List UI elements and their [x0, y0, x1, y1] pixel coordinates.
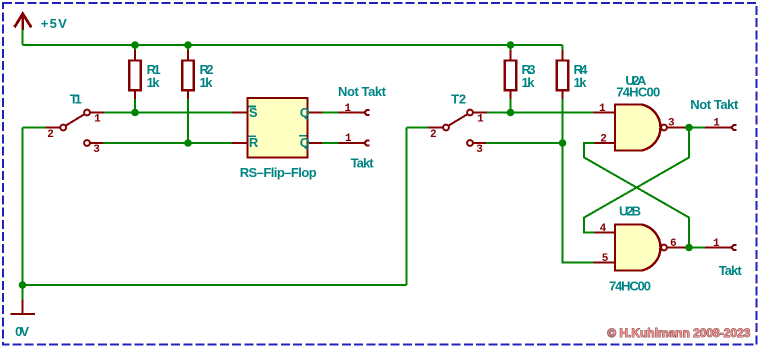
connector pin Takt (RS Qbar): [339, 140, 370, 145]
wire R4 node down to U2B pin5: [563, 143, 594, 263]
wire R row left: [103, 142, 233, 144]
svg-text:Takt: Takt: [351, 156, 375, 171]
svg-text:R: R: [249, 135, 259, 150]
svg-text:1k: 1k: [522, 75, 536, 90]
wire T2 pin3 to R4 node: [486, 142, 563, 144]
svg-text:U2B: U2B: [619, 204, 641, 219]
node ground: [19, 281, 27, 289]
wire U2A out right: [689, 127, 706, 129]
svg-text:1: 1: [94, 113, 101, 125]
wire S row left: [104, 112, 233, 114]
wire power vertical: [22, 30, 24, 46]
svg-text:74HC00: 74HC00: [609, 279, 651, 294]
wire ground rail: [23, 284, 407, 286]
nand gate U2B: [594, 225, 690, 271]
svg-text:6: 6: [670, 238, 677, 250]
svg-text:1k: 1k: [147, 75, 161, 90]
svg-text:2: 2: [47, 129, 54, 141]
wire ground stub: [22, 285, 24, 300]
wire T2 pin2 vertical: [406, 128, 408, 286]
ground 0V: [11, 299, 36, 314]
resistor R2: [182, 45, 194, 143]
wire U2B out to feedback: [584, 143, 689, 248]
svg-text:+5V: +5V: [41, 16, 67, 31]
svg-text:74HC00: 74HC00: [616, 85, 660, 100]
node R3 bottom: [507, 109, 515, 117]
nand gate U2A: [594, 105, 690, 151]
wire left vertical to ground rail: [22, 128, 24, 286]
svg-text:T2: T2: [451, 92, 466, 107]
connector pin Takt right: [705, 245, 737, 250]
resistor R4: [557, 50, 569, 143]
svg-text:Not Takt: Not Takt: [690, 97, 739, 112]
svg-text:3: 3: [93, 144, 100, 156]
wire T2 pin2 horizontal: [407, 127, 429, 129]
svg-text:2: 2: [430, 129, 437, 141]
svg-text:4: 4: [600, 223, 607, 235]
switch T1: [45, 110, 104, 146]
connector pin Not Takt (RS Q): [339, 110, 370, 115]
node R2 bottom: [184, 139, 192, 147]
RS flip-flop U1: [232, 98, 323, 158]
svg-text:© H.Kuhlmann 2008-2023: © H.Kuhlmann 2008-2023: [607, 326, 750, 340]
svg-text:Q: Q: [300, 105, 310, 120]
wire T1 pin2 to left rail: [23, 127, 46, 129]
node top R2: [184, 41, 192, 49]
wire U2A out to feedback: [584, 128, 689, 233]
node top R1: [131, 41, 139, 49]
node R4 bottom: [559, 139, 567, 147]
svg-text:3: 3: [476, 144, 483, 156]
svg-text:1: 1: [477, 113, 484, 125]
wire Qbar row: [322, 142, 339, 144]
wire T2 pin1 to U2A pin1: [487, 112, 594, 114]
svg-text:Q: Q: [300, 135, 310, 150]
power +5V symbol: [14, 14, 31, 30]
svg-text:0V: 0V: [15, 324, 29, 339]
node U2B out: [685, 244, 693, 252]
svg-text:1: 1: [345, 103, 352, 115]
resistor R1: [129, 45, 141, 113]
svg-text:1k: 1k: [200, 75, 214, 90]
svg-text:5: 5: [602, 253, 609, 265]
node R1 bottom: [131, 109, 139, 117]
wire R4 top drop: [562, 45, 564, 51]
node U2A out: [685, 124, 693, 132]
svg-text:RS–Flip–Flop: RS–Flip–Flop: [240, 165, 317, 180]
svg-text:T1: T1: [70, 92, 82, 107]
wire top rail: [23, 44, 563, 46]
svg-text:3: 3: [668, 118, 675, 130]
connector pin Not Takt right: [705, 125, 737, 130]
resistor R3: [505, 45, 517, 113]
node top R3: [507, 41, 515, 49]
svg-text:1: 1: [599, 103, 606, 115]
svg-text:1: 1: [713, 238, 720, 250]
svg-text:Not Takt: Not Takt: [338, 84, 387, 99]
svg-text:Takt: Takt: [719, 263, 743, 278]
wire Q row: [322, 112, 339, 114]
svg-text:2: 2: [600, 134, 607, 146]
svg-text:1k: 1k: [574, 75, 588, 90]
svg-text:1: 1: [713, 118, 720, 130]
svg-text:1: 1: [345, 133, 352, 145]
wire U2B out right: [689, 247, 706, 249]
switch T2: [428, 110, 487, 146]
